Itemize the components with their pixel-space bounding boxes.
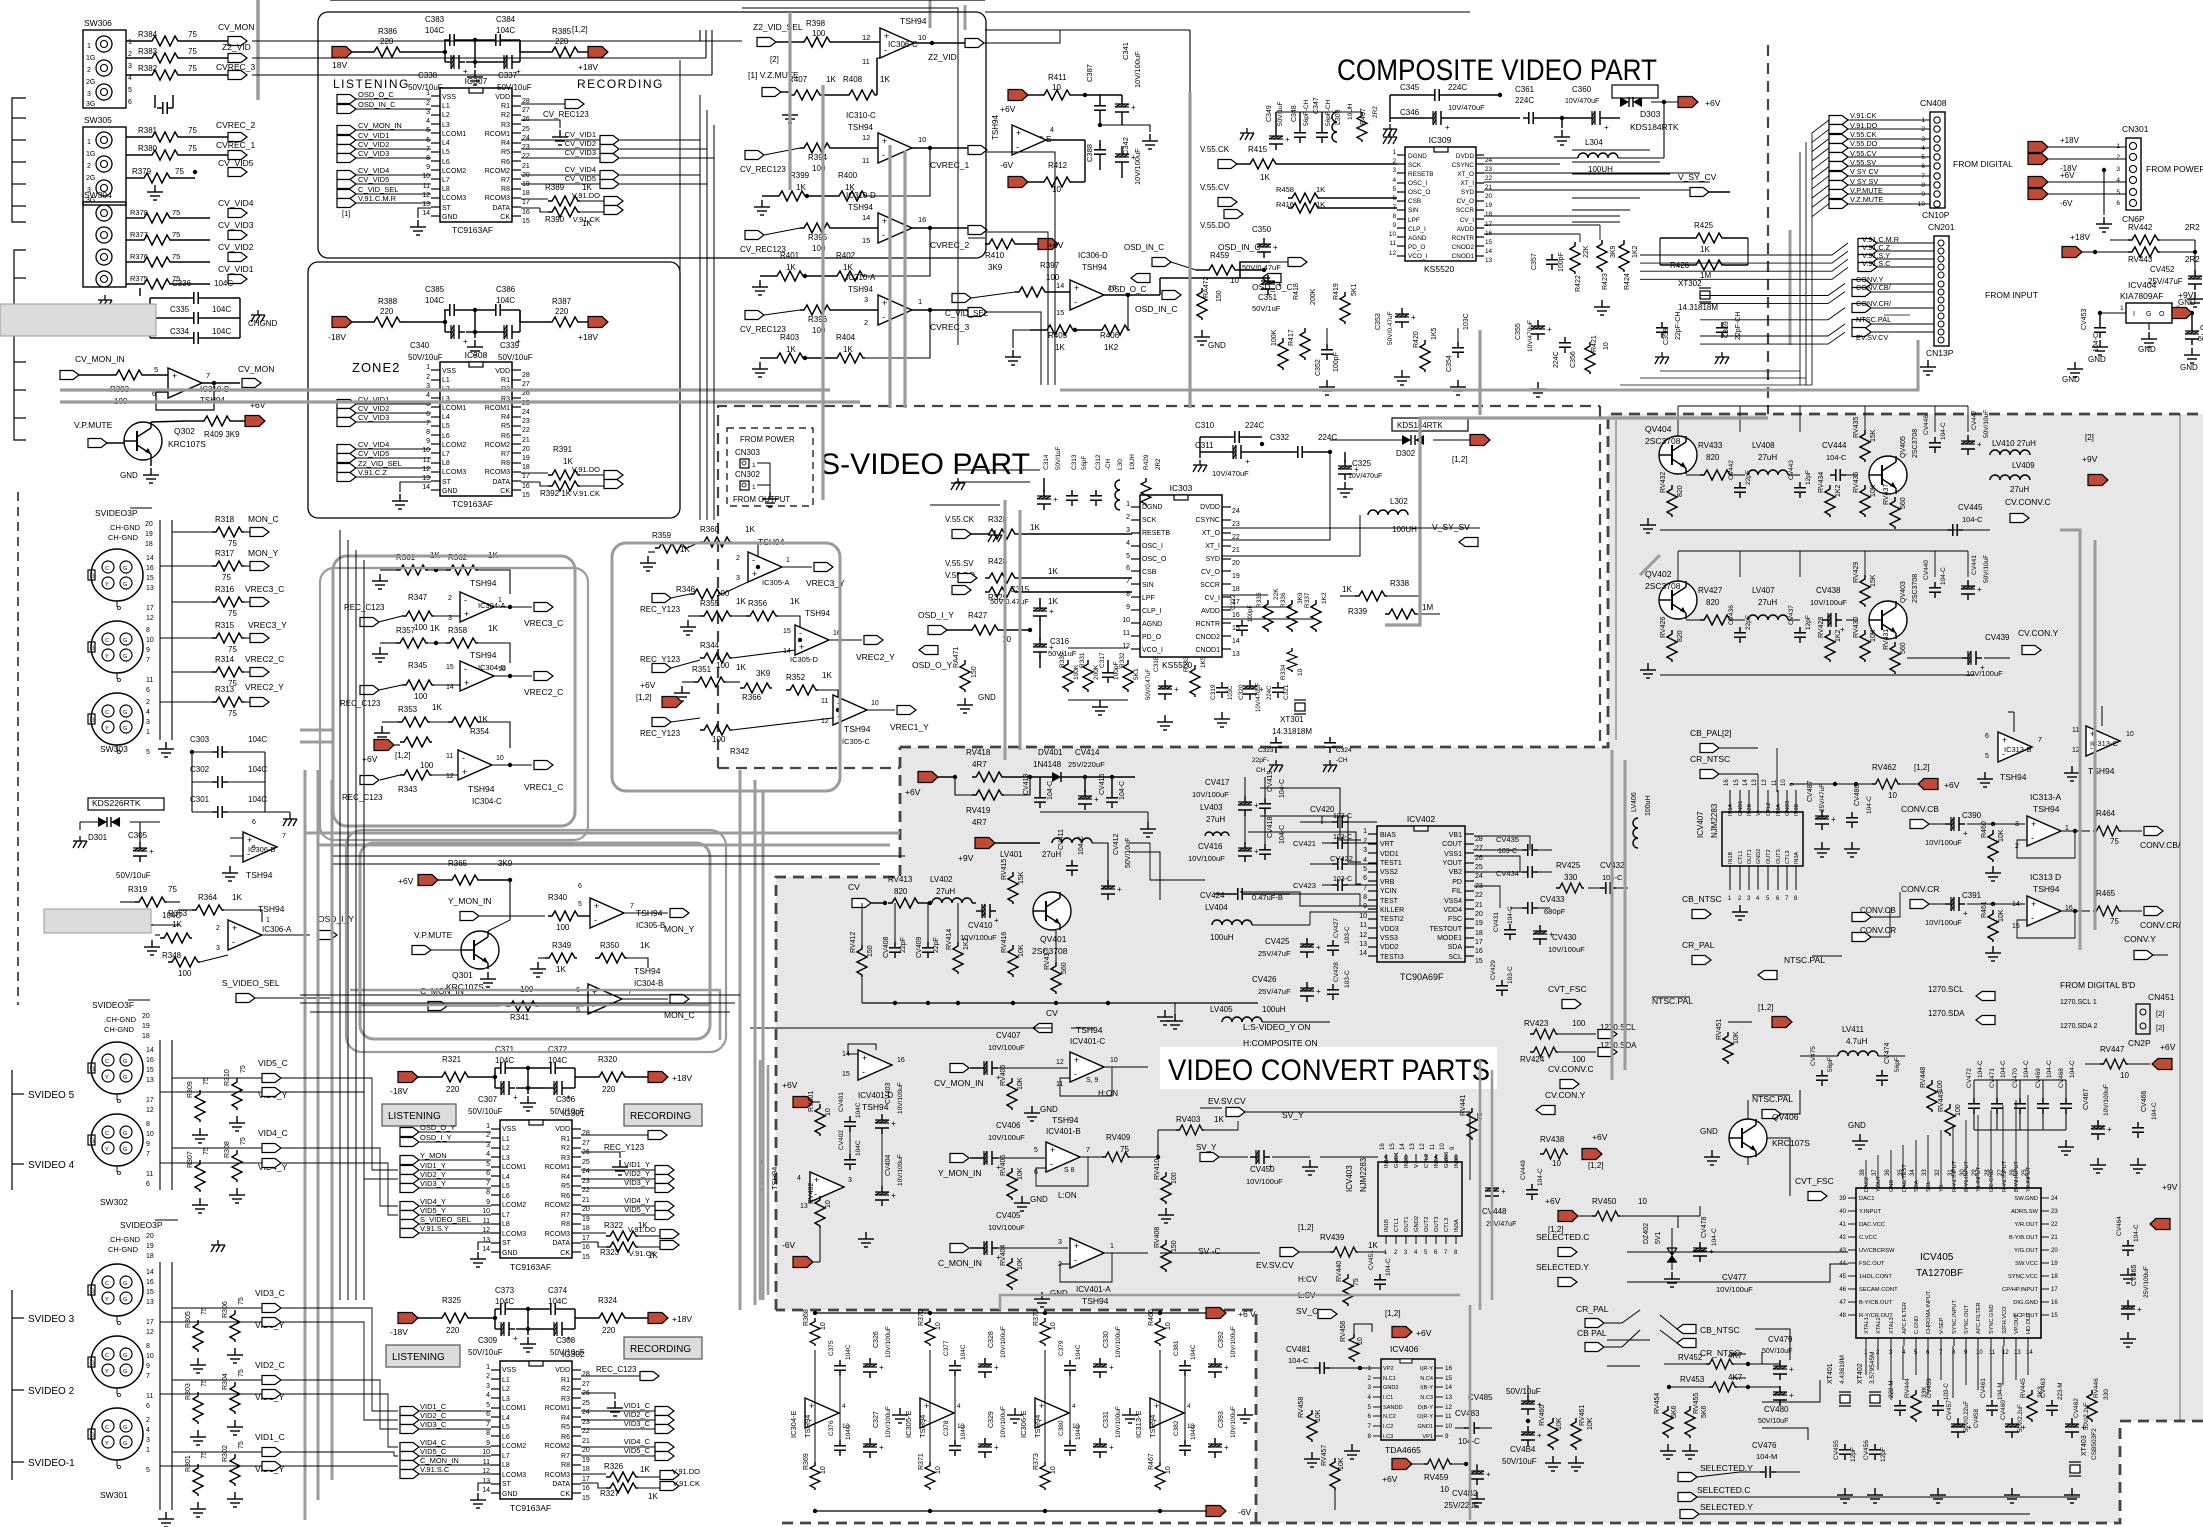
svg-text:ICV401-C: ICV401-C xyxy=(1070,1037,1105,1046)
svg-text:-: - xyxy=(2031,913,2034,923)
svg-text:G: G xyxy=(123,582,127,588)
svg-text:DAC2: DAC2 xyxy=(1864,1177,1870,1192)
svg-text:3K9: 3K9 xyxy=(756,669,771,678)
svg-text:ICV402: ICV402 xyxy=(1407,814,1436,824)
svg-text:7: 7 xyxy=(146,657,150,664)
svg-text:RV453: RV453 xyxy=(1680,1375,1705,1384)
svg-text:XT301: XT301 xyxy=(1280,715,1304,724)
svg-text:C361: C361 xyxy=(1515,85,1535,94)
svg-text:-: - xyxy=(882,150,885,160)
svg-text:R359: R359 xyxy=(652,531,672,540)
svg-text:10: 10 xyxy=(918,33,926,42)
svg-text:R6: R6 xyxy=(501,433,510,440)
capacitor CV480 50V/10uF xyxy=(1773,1386,1794,1406)
ground CV453 xyxy=(2092,340,2108,355)
svg-text:CV_VID3: CV_VID3 xyxy=(218,220,254,230)
ground IC302 xyxy=(478,1483,491,1491)
wire gray bottom bundle xyxy=(1000,1295,1470,1520)
svg-text:25: 25 xyxy=(582,1400,590,1407)
svg-text:22pF-CH: 22pF-CH xyxy=(1675,312,1682,340)
svg-text:1K: 1K xyxy=(1030,523,1040,532)
svg-text:28: 28 xyxy=(582,1371,590,1378)
label LISTENING boxed 2 xyxy=(386,1345,460,1367)
svg-text:10: 10 xyxy=(825,1200,832,1208)
svg-text:9: 9 xyxy=(1363,903,1367,910)
svg-text:103C: 103C xyxy=(1463,313,1470,330)
svg-text:RCNTR: RCNTR xyxy=(1196,621,1221,628)
svg-text:RCOM1: RCOM1 xyxy=(545,1405,570,1412)
svg-text:4: 4 xyxy=(842,1403,846,1410)
svg-text:3: 3 xyxy=(426,109,430,116)
capacitor C354 103C xyxy=(1452,342,1464,358)
svg-text:REC_C123: REC_C123 xyxy=(596,1365,637,1374)
svg-text:3K9: 3K9 xyxy=(988,263,1003,272)
svg-text:R5: R5 xyxy=(561,1424,570,1431)
svg-text:R390: R390 xyxy=(545,215,565,224)
svg-text:RV451: RV451 xyxy=(1716,1019,1723,1040)
svg-text:15K: 15K xyxy=(1870,574,1877,587)
pad +6V composite xyxy=(1678,97,1698,108)
svg-text:C391: C391 xyxy=(1962,891,1982,900)
pad +6V opamp supply xyxy=(1008,90,1028,101)
svg-text:21: 21 xyxy=(582,1438,590,1445)
svg-text:7: 7 xyxy=(146,1373,150,1380)
svg-text:10: 10 xyxy=(2126,731,2134,738)
svg-text:CV444: CV444 xyxy=(1822,441,1847,450)
svg-text:CV445: CV445 xyxy=(1958,503,1983,512)
svg-text:10V/100uF: 10V/100uF xyxy=(1230,1406,1237,1438)
svg-text:+: + xyxy=(882,216,887,226)
svg-text:GND: GND xyxy=(502,1491,518,1498)
svg-text:V.55.CV: V.55.CV xyxy=(1200,183,1230,192)
svg-text:VID4_Y: VID4_Y xyxy=(420,1197,446,1206)
svg-text:27uH: 27uH xyxy=(936,887,955,896)
svg-text:LV410 27uH: LV410 27uH xyxy=(1992,439,2036,448)
svg-text:CH-GND: CH-GND xyxy=(104,1025,135,1034)
svg-text:R383: R383 xyxy=(138,47,158,56)
capacitor CV454 50V/1uF xyxy=(2185,325,2203,345)
svg-text:R325: R325 xyxy=(442,1296,462,1305)
svg-text:ZONE2: ZONE2 xyxy=(352,360,400,375)
svg-text:Y: Y xyxy=(105,1369,109,1375)
pad +18V ic302 xyxy=(648,1313,668,1324)
svg-text:R395: R395 xyxy=(808,233,828,242)
svg-text:.CH-GND: .CH-GND xyxy=(108,523,141,532)
svg-text:104C: 104C xyxy=(855,1140,862,1156)
capacitor CV409 22pF xyxy=(922,942,934,958)
resistor RV458 10K xyxy=(1307,1410,1317,1442)
svg-text:220: 220 xyxy=(380,307,394,316)
ground CV452 xyxy=(2187,292,2203,307)
resistor R417 100K xyxy=(1278,338,1288,370)
svg-text:20: 20 xyxy=(2051,1248,2058,1254)
svg-text:14: 14 xyxy=(482,1487,490,1494)
gray label placeholder mid-left xyxy=(44,909,151,933)
svg-text:1K2: 1K2 xyxy=(1632,245,1639,258)
svg-text:3: 3 xyxy=(1126,527,1130,534)
svg-text:V.91.C.M.R: V.91.C.M.R xyxy=(358,194,397,203)
svg-text:Y/G.OUT: Y/G.OUT xyxy=(2014,1248,2038,1254)
shaded region VIDEO CONVERT PARTS xyxy=(776,414,2203,1523)
svg-text:+6V: +6V xyxy=(1000,104,1016,114)
svg-text:104C: 104C xyxy=(845,1424,852,1440)
svg-text:RV452: RV452 xyxy=(1678,1353,1703,1362)
svg-text:R411: R411 xyxy=(1048,73,1067,82)
svg-text:1: 1 xyxy=(266,917,270,924)
svg-text:QV403: QV403 xyxy=(1900,581,1907,603)
svg-text:TSH94: TSH94 xyxy=(1052,1115,1079,1125)
wire icv402 right links xyxy=(1474,836,1530,908)
svg-text:C339: C339 xyxy=(500,341,520,350)
svg-text:VSS4: VSS4 xyxy=(1444,898,1462,905)
svg-text:12: 12 xyxy=(1762,779,1768,786)
resistor R309 75 vertical xyxy=(195,1090,205,1122)
capacitor C336 104C xyxy=(139,288,141,296)
svg-text:4: 4 xyxy=(797,1175,801,1182)
svg-text:B-Y/CB.OUT: B-Y/CB.OUT xyxy=(1859,1300,1893,1306)
svg-text:CONV.CR/: CONV.CR/ xyxy=(2140,920,2181,930)
svg-text:CH-GND: CH-GND xyxy=(108,533,139,542)
svg-text:-: - xyxy=(882,312,885,322)
svg-text:S_VIDEO_SEL: S_VIDEO_SEL xyxy=(222,978,280,988)
svg-text:ICV401-A: ICV401-A xyxy=(1076,1285,1111,1294)
svg-text:OSD_O_Y: OSD_O_Y xyxy=(912,660,952,670)
svg-text:R403: R403 xyxy=(780,333,800,342)
svg-text:C376: C376 xyxy=(828,1420,835,1436)
svg-text:VDD4: VDD4 xyxy=(1443,907,1462,914)
svg-text:10V/100uF: 10V/100uF xyxy=(1133,51,1142,88)
ground C325 xyxy=(1337,482,1353,497)
op-amp IC305-B xyxy=(590,898,624,928)
svg-text:27uH: 27uH xyxy=(1758,598,1777,607)
svg-text:CSB: CSB xyxy=(1408,198,1421,205)
svg-text:17: 17 xyxy=(582,1235,590,1242)
svg-text:RV447: RV447 xyxy=(2100,1045,2125,1054)
svg-text:104-C: 104-C xyxy=(2023,1060,2030,1078)
svg-text:VID5_C: VID5_C xyxy=(624,1446,651,1455)
svg-text:IC309: IC309 xyxy=(1429,135,1452,145)
svg-text:+: + xyxy=(1016,128,1021,138)
resistor R381 75 xyxy=(126,136,148,138)
svg-text:50V/2.2uF: 50V/2.2uF xyxy=(2018,1404,2024,1432)
svg-text:8: 8 xyxy=(486,1430,490,1437)
svg-text:13: 13 xyxy=(146,1077,154,1084)
svg-text:20: 20 xyxy=(145,521,153,528)
IC303 KS5520 xyxy=(1140,495,1222,657)
svg-text:SELECTED.C: SELECTED.C xyxy=(1697,1485,1750,1495)
svg-text:CV436: CV436 xyxy=(1728,605,1735,625)
resistor R423 3K9 xyxy=(1597,240,1607,272)
svg-text:CH: CH xyxy=(1256,767,1266,774)
resistor RV415 15K xyxy=(1008,872,1018,904)
svg-text:4: 4 xyxy=(1921,145,1925,152)
svg-text:CVT_FSC: CVT_FSC xyxy=(1795,1176,1834,1186)
svg-text:CV_VID3: CV_VID3 xyxy=(358,413,389,422)
svg-text:12: 12 xyxy=(862,133,870,142)
svg-text:10V/100uF: 10V/100uF xyxy=(988,1133,1025,1142)
svg-text:C390: C390 xyxy=(1962,811,1982,820)
svg-text:R379: R379 xyxy=(132,167,152,176)
transistor QV401 2SC3708 xyxy=(1033,892,1071,930)
svg-text:200K: 200K xyxy=(1310,288,1317,305)
svg-text:104C: 104C xyxy=(425,296,444,305)
svg-text:13: 13 xyxy=(1445,1394,1453,1401)
white band for VIDEO CONVERT PARTS title xyxy=(1160,1047,1497,1089)
capacitor near SW306 xyxy=(154,95,156,108)
svg-text:R1: R1 xyxy=(501,103,510,110)
svg-text:1: 1 xyxy=(752,484,756,491)
svg-text:CV416: CV416 xyxy=(1198,842,1223,851)
svg-text:R7: R7 xyxy=(501,177,510,184)
svg-text:SCK: SCK xyxy=(1142,517,1157,524)
svg-text:VID2_C: VID2_C xyxy=(420,1411,447,1420)
svg-text:10V/100uF: 10V/100uF xyxy=(1548,945,1585,954)
svg-text:TSH94: TSH94 xyxy=(634,966,661,976)
svg-text:IC313-E: IC313-E xyxy=(1134,1410,1143,1438)
svg-text:R315: R315 xyxy=(215,621,235,630)
svg-text:SANDD: SANDD xyxy=(1383,1405,1403,1411)
svg-text:R387: R387 xyxy=(552,297,572,306)
svg-text:104-C: 104-C xyxy=(2069,1060,2076,1078)
svg-text:RV459: RV459 xyxy=(1424,1473,1449,1482)
svg-text:RV414: RV414 xyxy=(946,929,953,950)
resistor R384 75 xyxy=(126,40,148,42)
svg-text:VDD2: VDD2 xyxy=(1380,944,1399,951)
svg-text:50V/10uF: 50V/10uF xyxy=(498,353,533,362)
svg-text:7: 7 xyxy=(1086,1147,1090,1154)
svg-text:FIL: FIL xyxy=(1452,888,1462,895)
svg-text:2: 2 xyxy=(864,318,868,327)
svg-text:R8: R8 xyxy=(561,1221,570,1228)
svg-text:CK: CK xyxy=(560,1250,570,1257)
svg-text:CVREC_1: CVREC_1 xyxy=(930,160,969,170)
svg-text:LCOM3: LCOM3 xyxy=(442,195,466,202)
svg-text:C318: C318 xyxy=(1153,656,1160,672)
ground D301 left xyxy=(73,836,87,848)
svg-text:SELECTED.Y: SELECTED.Y xyxy=(1700,1463,1753,1473)
svg-text:RV417: RV417 xyxy=(1044,949,1051,970)
svg-text:VRB: VRB xyxy=(1380,879,1395,886)
svg-text:L:S-VIDEO_Y ON: L:S-VIDEO_Y ON xyxy=(1243,1022,1310,1032)
svg-text:IN2B: IN2B xyxy=(1404,1155,1410,1168)
svg-text:V.91.CK: V.91.CK xyxy=(1850,111,1877,120)
pad 18V input xyxy=(332,47,352,58)
pad +6V cn301 xyxy=(2028,177,2048,188)
IC ICV402 TC90A69F xyxy=(1377,826,1465,962)
svg-text:VID4_C: VID4_C xyxy=(624,1437,651,1446)
transistor Q301 KRC107S xyxy=(461,931,499,969)
svg-text:50V/0.47uF: 50V/0.47uF xyxy=(1387,311,1394,345)
svg-text:75: 75 xyxy=(203,1077,210,1085)
svg-text:NTSC.PAL: NTSC.PAL xyxy=(1652,996,1693,1006)
svg-text:R394: R394 xyxy=(808,153,828,162)
svg-text:2: 2 xyxy=(486,1373,490,1380)
svg-text:OSC_O: OSC_O xyxy=(1408,189,1430,196)
svg-text:100UH: 100UH xyxy=(1392,525,1417,534)
svg-text:1K: 1K xyxy=(1368,1241,1378,1250)
svg-text:R371: R371 xyxy=(918,1453,925,1470)
svg-text:R385: R385 xyxy=(552,27,572,36)
svideo connector SW301 b xyxy=(91,1336,143,1388)
svg-text:RCOM3: RCOM3 xyxy=(485,195,510,202)
svg-text:10: 10 xyxy=(1052,83,1061,92)
svg-text:50V/10uF: 50V/10uF xyxy=(1983,555,1990,583)
svg-text:15: 15 xyxy=(522,218,530,225)
svg-text:14: 14 xyxy=(146,555,154,562)
svg-text:104C: 104C xyxy=(212,305,231,314)
svg-text:IC313 D: IC313 D xyxy=(2030,872,2061,882)
svg-text:CV407: CV407 xyxy=(996,1031,1021,1040)
svg-text:15: 15 xyxy=(146,1067,154,1074)
capacitor CV476 104-M xyxy=(1760,1466,1776,1478)
capacitor C307 50V/10uF xyxy=(495,1081,518,1102)
svg-text:R307: R307 xyxy=(187,1151,194,1168)
resistor R407 1K xyxy=(781,91,790,93)
resistor R386 220 xyxy=(370,47,402,57)
svg-text:RV432: RV432 xyxy=(1660,472,1667,493)
wire bundle above IC301 xyxy=(300,995,740,1012)
cap cluster 222-M RV444 CV459 etc xyxy=(1894,1400,1906,1416)
svg-text:SV_Y: SV_Y xyxy=(1196,1143,1217,1152)
svg-text:LCOM1: LCOM1 xyxy=(442,405,466,412)
svg-text:5: 5 xyxy=(146,1467,150,1474)
svg-text:C386: C386 xyxy=(496,285,516,294)
capacitor CV474 56pF xyxy=(1876,1070,1888,1086)
svg-text:+: + xyxy=(809,1401,814,1411)
svg-text:C: C xyxy=(105,566,109,572)
svg-text:28: 28 xyxy=(1475,836,1483,843)
svg-text:22: 22 xyxy=(522,427,530,434)
ground CN301 xyxy=(2096,217,2112,232)
capacitor C308 50V/10uF xyxy=(548,1322,571,1343)
svg-text:4: 4 xyxy=(1126,540,1130,547)
svg-text:SELECTED.Y: SELECTED.Y xyxy=(1700,1502,1753,1512)
svg-text:16: 16 xyxy=(897,1057,905,1064)
svg-text:5: 5 xyxy=(486,1161,490,1168)
svg-text:10: 10 xyxy=(1122,617,1130,624)
svg-text:15: 15 xyxy=(146,1289,154,1296)
svg-text:LV402: LV402 xyxy=(930,875,953,884)
svg-text:R418: R418 xyxy=(1293,283,1300,300)
svg-text:104-C: 104-C xyxy=(1279,825,1286,844)
ground R405 xyxy=(1013,330,1030,348)
svg-text:L4: L4 xyxy=(502,1174,510,1181)
svg-text:10: 10 xyxy=(1165,1322,1172,1330)
svg-text:14: 14 xyxy=(1232,638,1240,645)
svg-text:104C: 104C xyxy=(248,795,267,804)
svg-text:12: 12 xyxy=(422,466,430,473)
svg-text:5: 5 xyxy=(1985,753,1989,760)
svg-text:R336: R336 xyxy=(1280,592,1287,608)
svg-text:R326: R326 xyxy=(604,1462,624,1471)
svg-text:32FH.VCO: 32FH.VCO xyxy=(2002,1306,2008,1334)
svg-text:15: 15 xyxy=(1475,958,1483,965)
svg-text:FROM POWER: FROM POWER xyxy=(2146,164,2203,174)
svg-text:CV401: CV401 xyxy=(838,1092,845,1112)
svg-text:R313: R313 xyxy=(215,685,235,694)
svg-text:18: 18 xyxy=(145,541,153,548)
svg-text:RV458: RV458 xyxy=(1298,1397,1305,1418)
svg-text:R301: R301 xyxy=(185,1455,192,1472)
svg-text:10K: 10K xyxy=(1315,1409,1322,1422)
svg-text:19: 19 xyxy=(1475,920,1483,927)
svg-text:IC308: IC308 xyxy=(465,350,488,360)
svg-text:5: 5 xyxy=(1921,154,1925,161)
svg-text:TEST1: TEST1 xyxy=(1380,860,1402,867)
svg-text:R378: R378 xyxy=(130,208,148,217)
svg-text:104-C: 104-C xyxy=(1962,515,1983,524)
svg-text:R412: R412 xyxy=(1048,161,1068,170)
svg-text:R333: R333 xyxy=(1183,656,1190,672)
svg-text:75: 75 xyxy=(172,208,180,217)
svg-text:22pF-: 22pF- xyxy=(1252,757,1269,764)
svg-text:CV_VID2: CV_VID2 xyxy=(218,242,254,252)
svg-text:CB_NTSC: CB_NTSC xyxy=(1682,894,1722,904)
capacitor CV442 22pF xyxy=(1734,482,1746,498)
ground R403 xyxy=(752,362,768,377)
svg-text:IC304-A: IC304-A xyxy=(478,601,506,610)
svg-text:L4: L4 xyxy=(502,1415,510,1422)
svg-text:23: 23 xyxy=(2051,1209,2058,1215)
svg-text:VID2_C: VID2_C xyxy=(255,1360,285,1370)
svg-text:11: 11 xyxy=(862,156,870,165)
svg-text:C_MON_IN: C_MON_IN xyxy=(420,1456,459,1465)
bottom rail CV block xyxy=(862,1002,1258,1004)
svg-text:R380: R380 xyxy=(138,144,158,153)
svg-text:224C: 224C xyxy=(1318,433,1337,442)
svg-text:TSH94: TSH94 xyxy=(848,203,873,212)
svg-text:I.C2: I.C2 xyxy=(1383,1424,1393,1430)
svg-text:CP/HP.INPUT: CP/HP.INPUT xyxy=(2002,1287,2038,1293)
svg-text:V+: V+ xyxy=(1414,1160,1420,1168)
svg-text:C323: C323 xyxy=(1258,747,1274,754)
svg-text:+: + xyxy=(2031,819,2036,829)
svg-text:R343: R343 xyxy=(398,785,418,794)
svg-text:-: - xyxy=(799,628,802,638)
svg-text:RV416: RV416 xyxy=(1001,932,1008,953)
svg-text:CV433: CV433 xyxy=(1540,895,1565,904)
svg-text:IN3A: IN3A xyxy=(1454,1219,1460,1232)
svg-text:-: - xyxy=(462,753,465,763)
svg-text:CTL2: CTL2 xyxy=(1424,1154,1430,1168)
svg-text:50V/10uF: 50V/10uF xyxy=(408,353,443,362)
svg-text:6: 6 xyxy=(578,883,582,890)
svg-text:L3: L3 xyxy=(502,1155,510,1162)
svg-text:V.P.MUTE: V.P.MUTE xyxy=(74,420,113,430)
ground R423 xyxy=(1594,300,1610,315)
svg-text:CR_NTSC: CR_NTSC xyxy=(1690,754,1730,764)
node EV.SV.CV b xyxy=(1280,1248,1299,1257)
svg-text:75: 75 xyxy=(175,167,184,176)
svg-text:21: 21 xyxy=(582,1197,590,1204)
svg-text:4: 4 xyxy=(1363,857,1367,864)
svg-text:RV436: RV436 xyxy=(1853,472,1860,493)
svg-text:CV.CONV.C: CV.CONV.C xyxy=(1548,1064,1594,1074)
svg-text:OSD_IN_C: OSD_IN_C xyxy=(1124,243,1164,252)
svg-text:10: 10 xyxy=(1638,1197,1647,1206)
svg-text:15: 15 xyxy=(1056,308,1064,317)
svg-text:13: 13 xyxy=(1410,1143,1416,1150)
svg-text:RCOM1: RCOM1 xyxy=(485,405,510,412)
svg-text:8: 8 xyxy=(1392,213,1396,220)
svg-text:224C: 224C xyxy=(1267,685,1273,700)
capacitor CV402 104C xyxy=(844,1154,856,1170)
capacitor C316 50V/1uF xyxy=(1033,638,1054,658)
IC IC302 TC9163AF xyxy=(500,1361,572,1499)
svg-text:GND: GND xyxy=(2138,345,2156,354)
svg-text:SW.GND: SW.GND xyxy=(2014,1196,2038,1202)
svg-text:C324: C324 xyxy=(1336,747,1352,754)
